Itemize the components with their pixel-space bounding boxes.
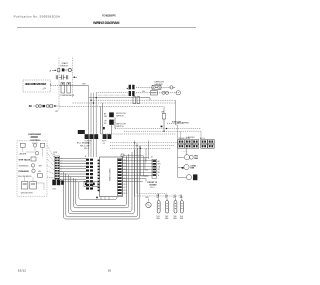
svg-text:4 5: 4 5	[103, 143, 105, 145]
row B switch box	[151, 91, 158, 95]
loop bundle 1a	[64, 146, 140, 219]
header rule	[17, 27, 196, 29]
loop bundle 1b	[66, 148, 138, 217]
overload symbol pair	[61, 75, 63, 80]
svg-text:WH–2 LINE: WH–2 LINE	[80, 145, 90, 147]
thermistor feed lines	[141, 175, 149, 177]
board left pin nubs	[98, 160, 100, 192]
relay coil blob	[62, 68, 65, 71]
connector row above board	[78, 130, 85, 134]
sensor side label leader	[167, 122, 184, 124]
compressor enclosure dashed right edge	[72, 58, 74, 98]
junction dots	[90, 100, 91, 101]
condenser fan motor	[178, 166, 184, 168]
svg-text:P4 P5: P4 P5	[102, 141, 106, 143]
sensor feed vertical	[163, 106, 165, 113]
J1 pins	[55, 157, 59, 179]
cap second element	[65, 75, 67, 79]
heater box	[40, 143, 44, 147]
connector grid row 1	[178, 140, 185, 144]
main board outline	[100, 157, 123, 197]
harness connector blob 1	[52, 180, 56, 186]
harness connector dark bars	[129, 85, 131, 90]
svg-text:AIR DAMPER: AIR DAMPER	[177, 121, 190, 124]
svg-text:J3-1: J3-1	[123, 187, 126, 189]
inline dark contact	[43, 105, 45, 107]
svg-text:WIRING DIAGRAM: WIRING DIAGRAM	[93, 21, 120, 25]
loop bundle 3b	[76, 156, 127, 206]
aux connector mark	[103, 127, 105, 129]
svg-text:Publication No. 5995583D0A: Publication No. 5995583D0A	[14, 15, 61, 19]
loop bundle 2a	[69, 150, 135, 214]
svg-text:J1–: J1–	[85, 156, 88, 158]
svg-text:J2-9: J2-9	[123, 184, 126, 186]
connector side labels	[158, 161, 162, 177]
harness connector blob 2	[57, 180, 61, 186]
chain row A wire	[136, 86, 176, 88]
svg-text:DISPENSER: DISPENSER	[28, 134, 41, 136]
svg-text:COMPRESSOR: COMPRESSOR	[60, 95, 75, 97]
board bottom drops	[96, 197, 98, 200]
chain row B wire	[136, 92, 180, 94]
row B end cap	[176, 91, 180, 95]
strip to board wires	[60, 158, 86, 181]
sensor lead down	[163, 119, 165, 131]
svg-text:LINE CORD 120V 60HZ: LINE CORD 120V 60HZ	[25, 82, 47, 86]
second connector circle	[46, 105, 49, 108]
svg-text:MAIN BOARD: MAIN BOARD	[109, 168, 112, 181]
box internal wires	[23, 148, 44, 191]
board bottom junction dot	[96, 197, 98, 199]
harness connector blob 3	[61, 180, 64, 184]
svg-text:16: 16	[108, 268, 112, 272]
svg-text:⌜ - - - - -: ⌜ - - - - -	[181, 150, 187, 153]
right box left edge	[177, 125, 179, 141]
column feed vertical	[177, 141, 179, 178]
drain tube circle	[146, 202, 151, 207]
overload protector box	[61, 83, 65, 94]
inline fuse box	[50, 105, 53, 108]
ptc contact	[57, 69, 60, 72]
motor circle 1	[33, 144, 36, 147]
svg-text:AUGER: AUGER	[20, 153, 27, 156]
loop bundle 3a	[74, 154, 129, 208]
svg-text:SWITCH: SWITCH	[116, 115, 124, 117]
svg-text:CONTROL: CONTROL	[30, 140, 41, 142]
svg-text:GN–3: GN–3	[84, 148, 89, 150]
svg-text:FAN: FAN	[194, 157, 198, 160]
lower bus line 2	[124, 130, 201, 132]
svg-text:J3-2: J3-2	[123, 190, 126, 192]
svg-text:FILL SW MOLD: FILL SW MOLD	[18, 176, 32, 178]
freezer fan motor	[178, 157, 185, 159]
svg-text:SOLENOID: SOLENOID	[19, 166, 29, 168]
svg-text:YL: YL	[158, 175, 160, 177]
connector grid row 2	[178, 144, 185, 148]
svg-text:BOARD: BOARD	[150, 183, 158, 186]
bus drop 2	[90, 93, 92, 157]
J1 pin numbers	[61, 158, 62, 178]
box to strip wires	[47, 145, 54, 178]
thermostat circle	[170, 86, 173, 89]
svg-text:CN–2: CN–2	[150, 187, 155, 189]
bus line 5	[73, 102, 177, 104]
dispenser connector strip	[152, 159, 157, 178]
light assembly	[178, 176, 187, 178]
loop bundle 2b	[71, 152, 132, 212]
damper feed vertical	[175, 100, 177, 125]
sensor body	[162, 114, 165, 119]
bus line 2	[98, 94, 128, 96]
defrost heater element	[152, 85, 161, 89]
main line wire through compressor	[51, 85, 60, 87]
door switch 1	[109, 112, 114, 117]
top feed label	[150, 187, 155, 189]
bus line 6	[60, 105, 164, 107]
aux relay box	[21, 143, 26, 147]
bottom boxes	[22, 181, 28, 189]
board top corner comp	[121, 154, 124, 156]
board right pin strip	[117, 158, 122, 195]
grid pin marks	[179, 141, 213, 148]
door switch 2	[109, 120, 114, 125]
plug connector circles	[36, 105, 39, 108]
right harness verticals	[134, 141, 136, 197]
lower bus line 1	[115, 128, 201, 130]
inner link wire	[90, 183, 92, 185]
board right pin labels	[123, 160, 126, 195]
board-to-right wires	[122, 159, 152, 161]
svg-text:120V MOTOR: 120V MOTOR	[21, 193, 34, 195]
switch drop wires	[100, 106, 102, 134]
lower bus line 3	[101, 133, 176, 135]
svg-text:BK: BK	[29, 106, 33, 108]
svg-text:BK–1 NEUTRAL: BK–1 NEUTRAL	[77, 142, 90, 145]
arrow right	[54, 105, 56, 107]
bus line 3	[89, 97, 141, 99]
row B connector circles	[162, 91, 165, 94]
inner component box 2	[92, 181, 98, 186]
start relay box	[67, 83, 71, 94]
arrow into cluster right	[73, 76, 77, 78]
thermostat rect pair	[133, 97, 136, 104]
svg-text:62/12: 62/12	[18, 268, 26, 272]
svg-text:SWITCH: SWITCH	[116, 126, 124, 128]
motor circle 2	[35, 151, 39, 155]
bus line 4	[91, 99, 176, 101]
svg-text:FAN: FAN	[190, 167, 194, 170]
J1 strip outline	[54, 156, 59, 179]
power cord box outline	[23, 80, 51, 92]
compressor enclosure dashed left edge	[58, 58, 60, 111]
bus junction dot	[163, 131, 164, 132]
inner loop to board	[79, 182, 117, 200]
svg-text:DEVICE: DEVICE	[61, 65, 69, 67]
bus drop 4	[95, 93, 97, 157]
svg-text:FGHB2866PF0: FGHB2866PF0	[102, 13, 117, 17]
svg-text:CN3: CN3	[52, 188, 55, 190]
start winding node circle	[68, 68, 71, 71]
svg-text:WTR VALVE: WTR VALVE	[19, 159, 31, 162]
thermistor feed dashes	[135, 195, 182, 197]
chain wire dashed	[34, 105, 61, 107]
svg-text:△N: △N	[43, 87, 47, 90]
bus drop 1	[88, 86, 90, 157]
svg-text:ICEMAKER: ICEMAKER	[18, 170, 29, 173]
svg-text:J3-3: J3-3	[123, 193, 126, 195]
svg-text:J4: J4	[151, 157, 153, 159]
inner component box 1	[84, 181, 90, 186]
bus drop 3	[93, 93, 95, 157]
bus line 1	[96, 92, 128, 94]
left harness connector blobs	[86, 159, 93, 190]
dispenser box outline	[17, 141, 47, 196]
run capacitor symbol	[55, 75, 57, 79]
